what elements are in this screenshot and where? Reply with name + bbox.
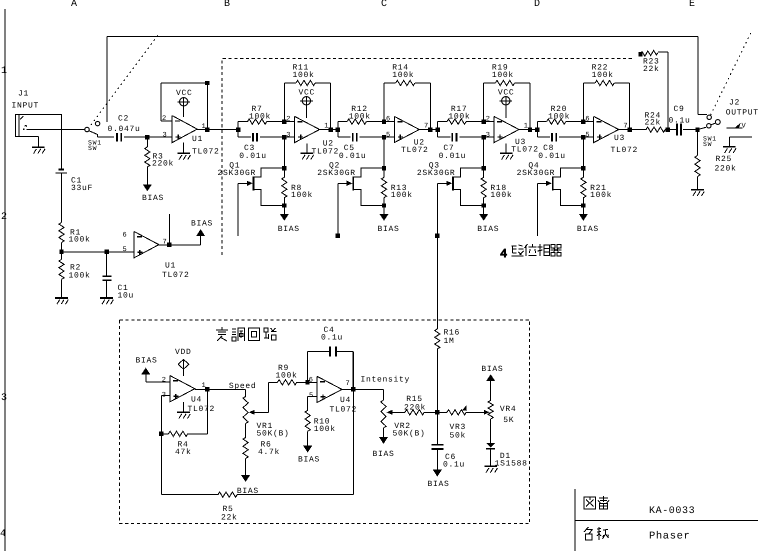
VCC symbol above stage U2 <box>299 89 316 118</box>
resistor R22 100k feedback <box>583 64 629 130</box>
op-amp U2 stage TL072 <box>295 116 339 156</box>
node C2 R3 <box>145 135 172 139</box>
capacitor C2 0.047u <box>98 115 148 142</box>
svg-text:Phaser: Phaser <box>649 531 690 543</box>
diode D1 1S1588 <box>486 419 527 469</box>
U1 pin 5 <box>123 246 127 254</box>
svg-text:6: 6 <box>585 115 589 123</box>
U1 pin 7 <box>163 239 167 247</box>
svg-text:A: A <box>71 0 77 10</box>
potentiometer VR1 50K(B) <box>243 389 290 438</box>
svg-text:2: 2 <box>286 115 290 123</box>
svg-text:0.1u: 0.1u <box>321 334 343 343</box>
wire U1 feedback <box>161 81 210 130</box>
wire stage output <box>619 127 645 131</box>
svg-text:2: 2 <box>162 376 166 384</box>
wire Q1 gate <box>237 183 239 236</box>
svg-text:OUTPUT: OUTPUT <box>726 109 758 118</box>
wire bypass top <box>107 37 707 122</box>
svg-text:7: 7 <box>346 380 350 388</box>
BIAS arrow below R13 <box>378 214 400 234</box>
svg-text:5: 5 <box>386 131 390 139</box>
svg-text:50K(B): 50K(B) <box>257 429 290 438</box>
op-amp U4 TL072 second half <box>317 376 357 414</box>
svg-text:J2: J2 <box>729 99 740 108</box>
wire U4a output <box>195 382 257 392</box>
node plus input Q2 stage <box>382 135 386 139</box>
svg-text:U3: U3 <box>614 134 625 143</box>
svg-text:6: 6 <box>386 115 390 123</box>
switch SW1 input <box>85 121 102 152</box>
resistor R4 47k <box>161 389 207 457</box>
svg-text:BIAS: BIAS <box>298 455 320 464</box>
svg-text:C9: C9 <box>674 105 685 114</box>
capacitor C1 10u <box>102 252 134 301</box>
svg-text:BIAS: BIAS <box>477 225 499 234</box>
capacitor C9 0.1u <box>665 105 697 136</box>
svg-text:BIAS: BIAS <box>136 356 158 365</box>
U2 pin 1 <box>324 122 328 130</box>
resistor R12 100k <box>338 105 384 124</box>
op-amp U1 TL072 <box>172 116 219 157</box>
svg-text:U4: U4 <box>340 396 351 405</box>
svg-text:100k: 100k <box>69 272 91 281</box>
svg-text:100k: 100k <box>492 71 514 80</box>
node plus input Q1 stage <box>282 135 286 139</box>
ground at J2 <box>723 137 736 153</box>
resistor R10 100k <box>305 410 336 446</box>
svg-text:22k: 22k <box>643 65 660 74</box>
svg-text:50k: 50k <box>450 432 467 441</box>
U3 pin 2 <box>486 115 490 123</box>
svg-text:100k: 100k <box>276 372 298 381</box>
switch SW1 output <box>703 115 717 148</box>
op-amp U3 stage TL072 <box>594 116 638 155</box>
svg-text:3: 3 <box>163 132 167 140</box>
svg-text:R25: R25 <box>716 155 733 164</box>
svg-text:2: 2 <box>1 212 7 223</box>
node U4 pin6 <box>305 380 317 384</box>
svg-text:VR4: VR4 <box>500 405 517 414</box>
resistor R18 100k <box>481 137 512 214</box>
transistor Q1 2SK30GR <box>218 161 285 205</box>
node output switch <box>695 127 706 132</box>
svg-text:U1: U1 <box>165 262 176 271</box>
VCC symbol above stage U3 <box>498 89 515 118</box>
U3 pin 6 <box>585 115 589 123</box>
svg-text:BIAS: BIAS <box>142 194 164 203</box>
U1 pin 1 <box>202 123 206 131</box>
svg-text:6: 6 <box>123 232 127 240</box>
resistor R2 100k <box>59 259 91 280</box>
U4 pin 3 <box>162 391 166 399</box>
svg-text:4: 4 <box>500 247 507 261</box>
svg-text:VCC: VCC <box>176 89 193 98</box>
U4 pin 7 <box>346 380 350 388</box>
U2 pin 5 <box>386 131 390 139</box>
svg-text:3: 3 <box>1 393 7 404</box>
U3 pin 3 <box>486 131 490 139</box>
wire Q3 gate <box>437 183 439 236</box>
svg-text:2SK30GR: 2SK30GR <box>417 169 456 178</box>
U1 pin 3 <box>163 132 167 140</box>
svg-text:22k: 22k <box>645 119 662 128</box>
svg-text:100k: 100k <box>592 71 614 80</box>
U2 pin 3 <box>286 131 290 139</box>
phase shifter dashed box <box>222 59 632 256</box>
ground below stage U2 <box>300 144 313 160</box>
resistor R21 100k <box>581 137 612 214</box>
resistor R1 100k <box>59 223 91 245</box>
svg-text:3: 3 <box>486 131 490 139</box>
svg-text:1: 1 <box>1 66 7 77</box>
ground below C1 <box>100 298 113 304</box>
svg-text:100k: 100k <box>391 191 413 200</box>
svg-text:220k: 220k <box>715 164 737 173</box>
resistor R3 220k <box>145 137 174 184</box>
resistor R20 100k <box>537 105 583 124</box>
svg-text:100k: 100k <box>490 191 512 200</box>
ground below R2 <box>55 279 68 304</box>
transistor Q2 2SK30GR <box>317 161 384 205</box>
node plus input Q3 stage <box>482 135 486 139</box>
transistor Q4 2SK30GR <box>517 161 584 205</box>
svg-text:INPUT: INPUT <box>12 102 40 111</box>
capacitor C8 0.01u <box>537 133 593 161</box>
U3 pin 1 <box>524 122 528 130</box>
potentiometer VR4 5K <box>488 381 516 425</box>
svg-text:2: 2 <box>162 115 166 123</box>
resistor R7 100k <box>238 105 284 124</box>
svg-text:C: C <box>381 0 387 10</box>
node control <box>435 410 439 414</box>
node stage input Q4 <box>535 122 539 138</box>
svg-text:Speed: Speed <box>229 382 257 391</box>
svg-text:6: 6 <box>309 376 313 384</box>
op-amp U2 stage TL072 <box>394 116 428 155</box>
BIAS arrow below VR2 <box>373 428 395 459</box>
svg-text:U4: U4 <box>191 396 202 405</box>
BIAS arrow below R10 <box>298 446 320 465</box>
svg-text:Intensity: Intensity <box>361 375 411 384</box>
svg-text:220k: 220k <box>152 160 174 169</box>
svg-text:0.01u: 0.01u <box>439 152 467 161</box>
label modulation circuit <box>216 327 277 341</box>
svg-text:100k: 100k <box>448 112 470 121</box>
resistor R14 100k feedback <box>384 64 430 130</box>
transistor Q3 2SK30GR <box>417 161 484 205</box>
resistor R13 100k <box>381 137 412 214</box>
svg-text:SW: SW <box>88 145 97 152</box>
wire divider to U1b <box>62 250 135 254</box>
node stage input Q1 <box>236 122 240 138</box>
LFO dashed box <box>120 320 530 524</box>
node gate bus Q3 <box>435 234 439 238</box>
node gate bus Q2 <box>336 234 340 238</box>
capacitor C5 0.01u <box>338 133 394 161</box>
potentiometer VR2 50K(B) <box>381 389 426 438</box>
wire input to divider <box>61 114 63 168</box>
svg-text:0.1u: 0.1u <box>669 117 691 126</box>
svg-text:TL072: TL072 <box>401 146 429 155</box>
U3 pin 5 <box>585 131 589 139</box>
wire oscillator loop <box>161 389 353 494</box>
node minus input Q2 stage <box>382 119 395 123</box>
wire U4b pin5 <box>308 396 317 410</box>
svg-text:TL072: TL072 <box>511 146 539 155</box>
U1 pin 2 <box>162 115 166 123</box>
capacitor C1 33uF <box>56 168 93 222</box>
resistor R23 22k <box>638 50 668 129</box>
svg-text:47k: 47k <box>175 448 192 457</box>
svg-text:TL072: TL072 <box>192 148 220 157</box>
switch link dashed right <box>711 31 753 116</box>
jack J1 INPUT <box>12 90 85 137</box>
label 4-stage phase shifter <box>500 244 562 261</box>
svg-text:100k: 100k <box>69 236 91 245</box>
wire stage output <box>419 127 437 131</box>
svg-text:100k: 100k <box>249 112 271 121</box>
wire U4a pin3 <box>161 396 170 495</box>
BIAS arrow below R8 <box>278 214 300 234</box>
svg-text:BIAS: BIAS <box>428 480 450 489</box>
ground at J1 <box>32 137 45 154</box>
U3 pin 7 <box>623 122 627 130</box>
text KA-0033 <box>649 506 695 517</box>
U2 pin 2 <box>286 115 290 123</box>
svg-text:100k: 100k <box>392 71 414 80</box>
capacitor C3 0.01u <box>238 133 294 161</box>
capacitor C6 0.1u <box>431 444 465 470</box>
svg-text:C2: C2 <box>118 115 129 124</box>
node U4b output <box>342 352 410 392</box>
U2 pin 6 <box>386 115 390 123</box>
BIAS arrow into U4 pin 2 <box>136 356 170 382</box>
svg-text:0.047u: 0.047u <box>108 125 141 134</box>
wire VR1 wiper to R9 <box>269 382 278 412</box>
svg-text:TL072: TL072 <box>162 271 190 280</box>
BIAS arrow below R3 <box>142 184 164 203</box>
jack J2 OUTPUT <box>715 99 758 138</box>
BIAS arrow above VR4 <box>481 365 503 381</box>
BIAS arrow below R21 <box>577 214 599 234</box>
svg-text:0.1u: 0.1u <box>443 461 465 470</box>
switch link dashed left <box>91 33 160 125</box>
rheostat VR3 50k <box>437 405 489 440</box>
resistor R24 22k <box>630 112 675 133</box>
title name label <box>584 527 609 540</box>
ground below U1 <box>177 142 190 159</box>
title block frame <box>575 489 758 551</box>
grid row numbers <box>0 66 7 540</box>
U4 pin 1 <box>202 382 206 390</box>
op-amp U4 TL072 first half <box>170 376 215 414</box>
VCC symbol above U1 <box>176 89 193 117</box>
node minus input Q1 stage <box>282 119 295 123</box>
ground below R25 <box>691 190 704 196</box>
BIAS arrow below R6 <box>237 475 259 496</box>
resistor R16 1M <box>435 236 460 444</box>
svg-text:TL072: TL072 <box>188 405 216 414</box>
resistor R15 220k <box>392 395 437 415</box>
svg-text:100k: 100k <box>293 71 315 80</box>
svg-text:5: 5 <box>585 131 589 139</box>
U1 pin 6 <box>123 232 127 240</box>
node stage input Q3 <box>435 122 439 138</box>
svg-text:B: B <box>224 0 230 10</box>
svg-text:BIAS: BIAS <box>378 225 400 234</box>
wire U1 output <box>197 127 238 131</box>
resistor R9 100k <box>276 364 308 385</box>
U4 pin 5 <box>309 392 313 400</box>
svg-text:3: 3 <box>286 131 290 139</box>
node R24 R23 <box>666 127 670 131</box>
node divider mid <box>59 243 63 260</box>
U4 pin 2 <box>162 376 166 384</box>
resistor R25 220k <box>695 130 737 190</box>
node stage input Q2 <box>336 122 340 138</box>
resistor R8 100k <box>282 137 313 214</box>
svg-text:BIAS: BIAS <box>373 450 395 459</box>
node minus input Q3 stage <box>482 119 495 123</box>
op-amp U3 stage TL072 <box>494 116 539 154</box>
text Phaser <box>649 531 690 543</box>
capacitor C4 0.1u <box>308 326 353 389</box>
VDD symbol above U4 <box>175 348 192 376</box>
ground below stage U3 <box>500 144 513 160</box>
svg-text:10u: 10u <box>118 292 135 301</box>
resistor R6 4.7k <box>243 424 280 476</box>
title drawing number label <box>584 496 609 509</box>
svg-text:100k: 100k <box>314 425 336 434</box>
node R4 tap <box>159 432 163 436</box>
wire Q2 gate <box>337 183 339 236</box>
wire stage output <box>519 127 537 131</box>
svg-text:2SK30GR: 2SK30GR <box>218 169 257 178</box>
svg-text:0.01u: 0.01u <box>538 152 566 161</box>
svg-text:BIAS: BIAS <box>577 225 599 234</box>
svg-text:100k: 100k <box>291 191 313 200</box>
svg-text:0.01u: 0.01u <box>239 152 267 161</box>
svg-text:33uF: 33uF <box>71 184 93 193</box>
resistor R19 100k feedback <box>484 64 530 130</box>
resistor R17 100k <box>438 105 484 124</box>
sheet left border <box>4 9 6 551</box>
wire Q4 gate <box>536 183 538 236</box>
wire stage output <box>320 127 338 131</box>
svg-text:0.01u: 0.01u <box>339 152 367 161</box>
svg-text:1S1588: 1S1588 <box>495 460 528 469</box>
svg-text:BIAS: BIAS <box>191 220 213 229</box>
ground below D1 <box>484 466 497 472</box>
svg-text:50K(B): 50K(B) <box>393 430 426 439</box>
wire U1b output to BIAS <box>159 214 201 247</box>
resistor R5 22k <box>218 492 238 522</box>
svg-text:4.7k: 4.7k <box>258 448 280 457</box>
svg-text:TL072: TL072 <box>611 146 639 155</box>
svg-text:VDD: VDD <box>175 348 192 357</box>
svg-text:J1: J1 <box>18 90 29 99</box>
svg-text:1M: 1M <box>444 337 455 346</box>
svg-text:U1: U1 <box>192 135 203 144</box>
svg-text:E: E <box>689 0 695 10</box>
svg-text:220k: 220k <box>404 403 426 412</box>
svg-text:2SK30GR: 2SK30GR <box>517 169 556 178</box>
svg-text:4: 4 <box>0 529 6 540</box>
BIAS source arrow <box>191 220 213 237</box>
svg-text:2SK30GR: 2SK30GR <box>317 169 356 178</box>
svg-text:KA-0033: KA-0033 <box>649 506 695 517</box>
svg-text:BIAS: BIAS <box>481 365 503 374</box>
svg-text:SW: SW <box>703 141 712 148</box>
svg-text:BIAS: BIAS <box>278 225 300 234</box>
svg-text:22k: 22k <box>221 513 238 522</box>
resistor R11 100k feedback <box>284 64 330 130</box>
U4 pin 6 <box>309 376 313 384</box>
svg-text:100k: 100k <box>548 112 570 121</box>
node plus input Q4 stage <box>581 135 585 139</box>
svg-text:5K: 5K <box>503 416 514 425</box>
node minus input Q4 stage <box>581 119 594 123</box>
svg-text:100k: 100k <box>590 191 612 200</box>
grid column letters <box>71 0 695 10</box>
capacitor C7 0.01u <box>438 133 494 161</box>
svg-text:5: 5 <box>123 246 127 254</box>
op-amp U1 second half TL072 <box>134 231 190 280</box>
ground below U4 <box>177 402 190 419</box>
U2 pin 7 <box>424 122 428 130</box>
svg-text:2: 2 <box>486 115 490 123</box>
svg-text:D: D <box>534 0 540 10</box>
BIAS arrow below R18 <box>477 214 499 234</box>
svg-text:100k: 100k <box>349 112 371 121</box>
BIAS arrow below C6 <box>428 470 450 489</box>
svg-text:TL072: TL072 <box>312 148 340 157</box>
